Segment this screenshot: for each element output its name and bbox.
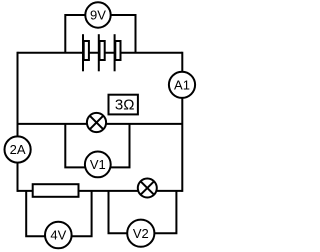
wire: left vertical conductor <box>17 52 19 192</box>
battery B1 cell 2 <box>99 34 105 71</box>
ammeter A1 (right vertical) <box>169 72 195 98</box>
wire: V2 voltmeter loop <box>109 191 177 233</box>
wire: right vertical conductor <box>181 52 183 192</box>
wire: 9V voltmeter loop (left riser, top link, right riser) <box>65 15 135 53</box>
voltmeter 4V (across resistor R1) <box>45 222 72 249</box>
lamp L2 (bottom branch) <box>138 179 157 198</box>
battery B1 cell 1 <box>83 34 89 71</box>
svg-text:2A: 2A <box>10 142 26 157</box>
wire: top conductor <box>18 52 183 54</box>
voltmeter V2 (across lamp L2) <box>127 220 154 247</box>
svg-text:3Ω: 3Ω <box>115 97 135 114</box>
lamp L1 (middle branch) <box>87 113 106 132</box>
resistor value label box 3Ω <box>109 95 138 115</box>
wire: middle branch conductor <box>18 123 183 125</box>
battery B1 cell 3 <box>115 34 121 71</box>
voltmeter 9V (across battery) <box>85 2 110 27</box>
wire: 4V voltmeter loop <box>26 191 91 236</box>
svg-text:4V: 4V <box>50 228 66 243</box>
resistor R1 (plain box on bottom branch) <box>33 184 79 197</box>
ammeter 2A (left vertical) <box>5 136 31 162</box>
svg-text:A1: A1 <box>174 77 190 92</box>
svg-text:V1: V1 <box>90 157 106 172</box>
wire: V1 voltmeter loop <box>65 124 129 167</box>
wire: bottom branch conductor <box>18 190 183 192</box>
voltmeter V1 (across lamp L1) <box>85 152 111 178</box>
svg-text:V2: V2 <box>133 226 149 241</box>
svg-text:9V: 9V <box>90 8 106 23</box>
